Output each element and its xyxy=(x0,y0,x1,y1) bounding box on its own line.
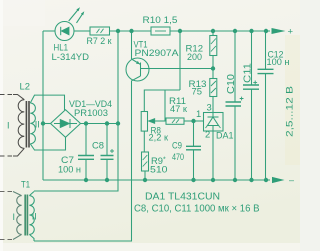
svg-text:2,2 к: 2,2 к xyxy=(149,132,169,143)
node bottom rail / C11 xyxy=(249,178,253,182)
node bridge plus / C7 xyxy=(84,121,88,125)
wire R8 wiper arrow from R11 xyxy=(149,90,166,123)
svg-text:C8: C8 xyxy=(92,140,104,151)
svg-text:C8, C10, C11 1000 мк × 16 В: C8, C10, C11 1000 мк × 16 В xyxy=(134,204,260,215)
svg-text:75: 75 xyxy=(192,86,203,97)
svg-text:2: 2 xyxy=(205,128,210,139)
resistor R9 xyxy=(142,152,149,180)
wire top rail R7 to R10 xyxy=(110,30,152,32)
capacitor C9 xyxy=(186,121,201,180)
svg-text:DA1 TL431CUN: DA1 TL431CUN xyxy=(145,192,220,203)
transformer T1 core xyxy=(25,195,27,236)
wire top rail LED to R7 xyxy=(74,30,90,32)
wire top rail left segment xyxy=(43,30,55,32)
svg-text:PR1003: PR1003 xyxy=(74,107,108,118)
capacitor C12 xyxy=(258,31,274,180)
node R11 / DA1 ref / C9 xyxy=(191,119,195,123)
shunt regulator DA1 TL431 xyxy=(194,113,224,181)
node bottom rail / R9 xyxy=(143,178,147,182)
node bottom rail / C9 xyxy=(191,178,195,182)
node bottom rail / C7 xyxy=(84,178,88,182)
wire riser R8 top to rail after R10 xyxy=(179,31,181,90)
node top rail / C10 xyxy=(233,29,237,33)
svg-text:3: 3 xyxy=(207,102,212,113)
output arrow plus xyxy=(272,28,286,34)
svg-text:I: I xyxy=(13,212,16,222)
svg-text:L2: L2 xyxy=(20,82,31,92)
bottom rail xyxy=(43,179,270,181)
output arrow minus xyxy=(272,177,285,183)
node top rail / C12 xyxy=(264,29,268,33)
svg-text:R7 2 к: R7 2 к xyxy=(87,35,113,46)
svg-text:100 н: 100 н xyxy=(58,164,81,175)
wire VT1 base to R12/R13 junction xyxy=(141,68,214,70)
svg-text:L-314YD: L-314YD xyxy=(52,51,90,62)
svg-text:–: – xyxy=(289,175,294,185)
svg-text:100 н: 100 н xyxy=(267,56,290,67)
inductor L2 winding II xyxy=(30,95,35,150)
node bridge plus / C8 xyxy=(105,121,109,125)
svg-text:II: II xyxy=(35,120,40,130)
svg-text:R10 1,5: R10 1,5 xyxy=(143,14,178,25)
node bottom rail / C10 xyxy=(233,178,237,182)
wire L2 II upper terminal to bridge AC top xyxy=(34,95,65,110)
wire bridge minus to left vertical xyxy=(43,123,51,125)
svg-text:1: 1 xyxy=(196,108,201,119)
wire VT1 emitter to top rail xyxy=(131,31,133,59)
transformer T1 dashed leads xyxy=(0,192,12,240)
node R12/R13 base junction xyxy=(211,66,215,70)
wire riser input: top rail to bridge+ and T1 winding II upper lead xyxy=(34,31,118,191)
svg-text:47 к: 47 к xyxy=(170,103,188,114)
resistor R10 xyxy=(151,27,170,35)
svg-text:PN2907A: PN2907A xyxy=(135,47,180,58)
node bottom rail / C12 xyxy=(264,178,268,182)
wire VT1 collector down to T1 winding II lower lead xyxy=(34,81,132,241)
svg-text:DA1: DA1 xyxy=(216,130,234,141)
wire top rail R10 to output xyxy=(170,30,270,32)
transformer T1 winding II xyxy=(29,192,34,242)
node bottom rail / DA1 anode xyxy=(211,178,215,182)
node top rail / VT1 emitter xyxy=(129,29,133,33)
LED HL1 xyxy=(55,10,82,41)
svg-text:510: 510 xyxy=(150,164,168,175)
svg-text:T1: T1 xyxy=(21,180,30,190)
inductor L2 winding I xyxy=(0,95,24,157)
resistor R13 xyxy=(210,68,217,113)
node top rail / R8 riser xyxy=(178,29,182,33)
inductor L2 core xyxy=(26,101,29,148)
capacitor C11 xyxy=(243,31,259,180)
resistor R11 xyxy=(166,118,194,124)
LED emission arrowheads xyxy=(76,7,80,11)
capacitor C8 xyxy=(101,124,115,181)
svg-text:C10: C10 xyxy=(226,74,237,94)
node top rail / C11 xyxy=(249,29,253,33)
wire bridge plus to riser xyxy=(81,123,119,125)
node bridge minus xyxy=(41,121,45,125)
resistor R8 (variable) xyxy=(141,90,180,152)
svg-text:470: 470 xyxy=(172,151,184,162)
VT1 emitter arrowhead xyxy=(136,61,140,64)
node top rail / riser input xyxy=(116,29,120,33)
svg-text:C11: C11 xyxy=(243,63,254,83)
capacitor C10 xyxy=(226,31,244,180)
svg-text:C9: C9 xyxy=(172,140,182,151)
node bottom rail / C8 xyxy=(105,178,109,182)
svg-text:200: 200 xyxy=(187,51,202,62)
svg-text:2,5...12 В: 2,5...12 В xyxy=(284,86,295,137)
svg-text:I: I xyxy=(7,121,10,131)
capacitor C7 xyxy=(78,124,94,181)
resistor R7 xyxy=(90,27,110,35)
transistor VT1 xyxy=(126,58,149,81)
diode bridge VD1-VD4 xyxy=(51,110,81,138)
transformer T1 winding I xyxy=(13,192,22,240)
svg-text:+: + xyxy=(288,26,294,37)
svg-text:II: II xyxy=(32,212,37,222)
wire left vertical from LED loop to bottom rail xyxy=(42,31,44,180)
resistor R12 xyxy=(210,31,217,68)
node bridge plus / riser xyxy=(116,121,120,125)
wire L2 II lower terminal to bridge AC bottom xyxy=(34,137,66,150)
node top rail / R12 xyxy=(211,29,215,33)
